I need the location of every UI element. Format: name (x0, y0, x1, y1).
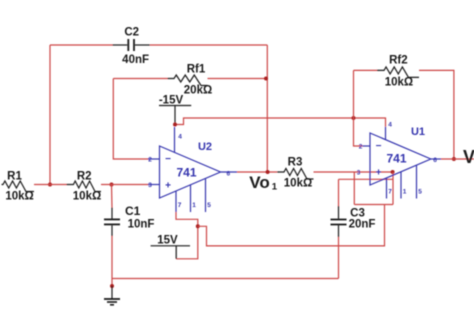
U2 pin3 lead (148, 184, 160, 186)
svg-text:-15V: -15V (159, 95, 184, 107)
svg-text:6: 6 (227, 170, 231, 177)
svg-text:7: 7 (178, 202, 182, 209)
U2 output lead (221, 171, 238, 173)
svg-text:Rf1: Rf1 (187, 63, 206, 75)
U2 pin4 lead (174, 127, 176, 152)
svg-text:4: 4 (178, 134, 182, 141)
svg-text:V: V (463, 147, 474, 167)
capacitor C2 (113, 44, 128, 46)
svg-text:1: 1 (192, 202, 196, 209)
resistor R3 (277, 169, 313, 180)
svg-text:Rf2: Rf2 (389, 55, 408, 67)
svg-text:10kΩ: 10kΩ (284, 178, 312, 190)
svg-text:C3: C3 (350, 207, 365, 219)
svg-text:1: 1 (272, 181, 278, 192)
wire 15V rail to U1 pin7 loop (198, 205, 385, 246)
wire output vertical from C2 (266, 45, 268, 172)
wire Rf1 right to vertical (208, 78, 267, 80)
capacitor C3 (338, 206, 340, 219)
svg-text:5: 5 (418, 189, 422, 196)
wire Rf1 left vertical (113, 79, 148, 160)
svg-text:10nF: 10nF (128, 219, 155, 231)
wire R2 to U2 pin3 (101, 184, 149, 186)
svg-text:40nF: 40nF (122, 54, 149, 66)
U2 pin7 lead (175, 191, 177, 212)
U1 output lead (431, 158, 441, 160)
svg-text:−: − (376, 141, 382, 152)
ground (111, 286, 113, 299)
svg-text:R1: R1 (7, 170, 22, 182)
junction Rf2-output (452, 157, 456, 161)
svg-text:C1: C1 (125, 204, 141, 218)
svg-text:5: 5 (207, 202, 211, 209)
svg-text:10kΩ: 10kΩ (385, 77, 413, 89)
svg-text:C2: C2 (124, 27, 139, 39)
resistor Rf1 (168, 75, 208, 86)
svg-text:10kΩ: 10kΩ (5, 191, 33, 203)
wire C2 right to output vertical (150, 44, 267, 46)
junction 15V node (196, 224, 200, 228)
svg-text:3: 3 (357, 169, 361, 176)
svg-text:741: 741 (176, 165, 196, 179)
resistor R2 (67, 181, 102, 192)
U2 pin1 lead (190, 185, 192, 212)
wire C3 bottom vertical (338, 237, 340, 279)
wire U1 pin3 loop bottom (354, 204, 393, 206)
svg-text:+: + (165, 180, 171, 191)
wire ground rail (112, 278, 339, 280)
svg-text:−: − (165, 154, 171, 165)
U1 pin1 lead (400, 172, 402, 199)
resistor R1 (2, 181, 35, 192)
wire C3 top horizontal (339, 178, 394, 180)
svg-text:2: 2 (148, 156, 152, 163)
wire U1 pin3 loop left vertical (353, 172, 355, 205)
wire U2 output to R3 (237, 171, 277, 173)
svg-text:3: 3 (148, 182, 152, 189)
junction Rf1-output vertical (264, 77, 268, 81)
wire -15V rail (175, 118, 386, 127)
svg-text:6: 6 (433, 157, 437, 164)
svg-text:20nF: 20nF (349, 219, 376, 231)
wire U1 pin3 loop right vertical (392, 172, 394, 205)
junction -15V pin4 (173, 123, 177, 127)
resistor Rf2 (377, 67, 419, 78)
wire left vertical node A (49, 45, 51, 185)
svg-text:+: + (376, 167, 382, 178)
svg-text:U1: U1 (411, 126, 425, 138)
op-amp U2 (160, 146, 221, 198)
wire Rf1 left horizontal (113, 78, 167, 80)
svg-text:1: 1 (403, 189, 407, 196)
svg-text:R3: R3 (288, 157, 303, 169)
wire C2 top-left horizontal (50, 44, 113, 46)
U2 pin2 lead (148, 158, 160, 160)
svg-text:4: 4 (388, 121, 392, 128)
svg-text:R2: R2 (77, 170, 92, 182)
U1 pin4 lead (385, 127, 387, 140)
wire Rf2 right down to U1 output (419, 70, 454, 159)
op-amp U1 (370, 133, 431, 185)
wire Rf2 left horizontal (354, 69, 378, 71)
capacitor C1 (111, 208, 113, 219)
U1 pin5 lead (416, 165, 418, 198)
junction ground node (110, 284, 114, 288)
wire R3 to U1 pin3 (314, 171, 393, 173)
node A junction dot (48, 183, 52, 187)
svg-text:7: 7 (388, 189, 392, 196)
junction -15V rail Rf2 vertical (352, 116, 356, 120)
wire R1 to R2 (34, 184, 67, 186)
svg-text:2: 2 (359, 143, 363, 150)
node B junction dot (110, 183, 114, 187)
svg-text:20kΩ: 20kΩ (184, 85, 212, 97)
svg-text:Vo: Vo (249, 173, 269, 192)
junction output C2 vertical (266, 170, 270, 174)
U2 pin5 lead (205, 179, 207, 213)
U1 pin7 lead (386, 178, 388, 199)
svg-text:15V: 15V (157, 235, 178, 247)
wire C3 top vertical (338, 179, 340, 206)
svg-text:10kΩ: 10kΩ (73, 191, 101, 203)
svg-text:U2: U2 (198, 141, 212, 153)
wire U2 pin7 to 15V loop (176, 212, 198, 259)
svg-text:741: 741 (386, 151, 406, 165)
wire Rf2 left vertical to U1 pin2 (354, 70, 363, 146)
wire U1 output to edge (441, 158, 474, 160)
U1 pin2 lead (363, 145, 371, 147)
wire C1 bottom to ground (111, 236, 113, 286)
wire C1 top (111, 185, 114, 208)
junction U1 pin3 node (391, 170, 395, 174)
